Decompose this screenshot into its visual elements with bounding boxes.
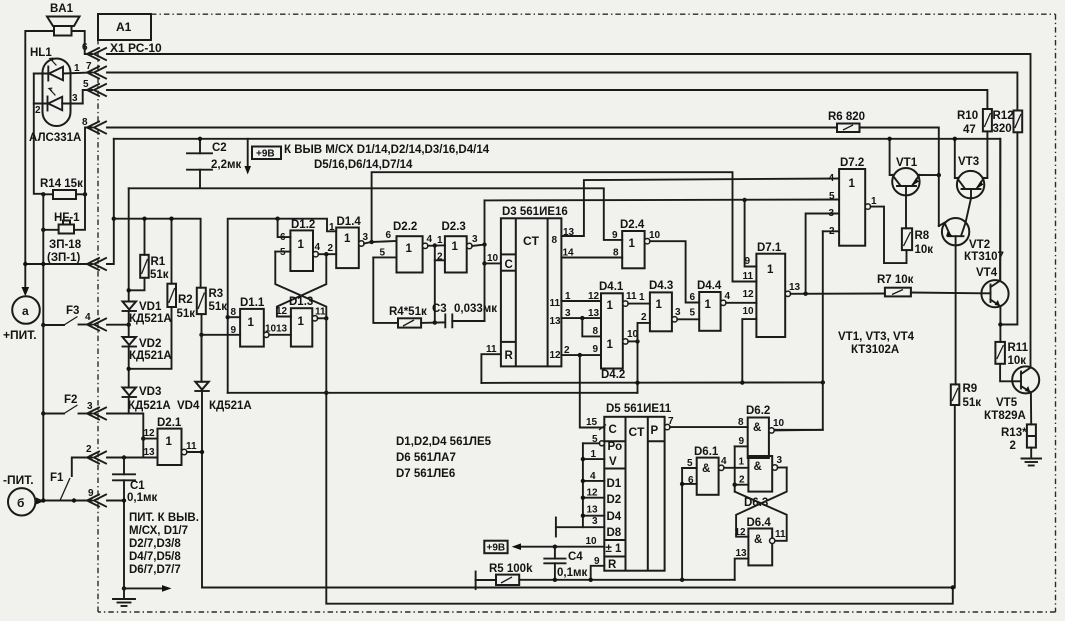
svg-text:VT1, VT3, VT4: VT1, VT3, VT4 [838, 331, 915, 343]
svg-text:12: 12 [735, 527, 747, 538]
svg-text:10: 10 [586, 536, 598, 547]
svg-text:D6.3: D6.3 [744, 497, 768, 509]
long line pin8 (+9V feed) to R6 [107, 127, 837, 129]
transistor VT2 [942, 218, 969, 245]
R12 bottom to VT4 emitter node [1001, 132, 1018, 324]
svg-text:КТ3107: КТ3107 [964, 251, 1004, 263]
svg-text:R: R [608, 559, 617, 571]
A1 box [98, 14, 151, 40]
feedback loop B (D1.1 pin8 net) [228, 392, 638, 394]
svg-text:13: 13 [276, 324, 288, 335]
svg-text:6: 6 [386, 230, 392, 241]
svg-text:VD4: VD4 [177, 400, 200, 412]
svg-text:D4.2: D4.2 [601, 369, 625, 381]
svg-text:D1.3: D1.3 [289, 296, 313, 308]
capacitor C4 [553, 545, 557, 549]
diode VD2 [128, 311, 130, 337]
resistor R11 [995, 342, 1005, 364]
svg-text:R7 10к: R7 10к [877, 274, 914, 286]
D2.2 pin5 loop to R4 [373, 257, 398, 323]
svg-text:47: 47 [963, 124, 976, 136]
D2.1 out / VD4 node down to bottom rail A [201, 452, 203, 588]
R loop / reset net [481, 381, 822, 384]
svg-text:3: 3 [675, 307, 681, 318]
D6.3/D6.4 cross coupling [736, 468, 787, 537]
svg-text:КТ829А: КТ829А [984, 410, 1026, 422]
svg-text:1: 1 [344, 233, 351, 245]
svg-text:15: 15 [586, 417, 598, 428]
svg-text:4: 4 [315, 242, 321, 253]
ZP wire to border arrow [25, 263, 92, 265]
line f to D7.2 pin 5 [485, 199, 840, 202]
svg-text:(ЗП-1): (ЗП-1) [47, 252, 81, 264]
LED HL1.2 [34, 88, 83, 110]
svg-text:+9В: +9В [256, 149, 275, 160]
svg-text:3: 3 [472, 234, 478, 245]
svg-text:± 1: ± 1 [606, 543, 623, 555]
svg-text:320: 320 [993, 123, 1012, 135]
svg-text:F1: F1 [50, 472, 64, 484]
svg-text:D4/7,D5/8: D4/7,D5/8 [129, 551, 181, 563]
svg-text:4: 4 [427, 234, 433, 245]
wire speaker right to pin 6 [72, 31, 93, 54]
svg-text:D4.3: D4.3 [649, 280, 673, 292]
diode VD1 [128, 188, 130, 301]
svg-text:51к: 51к [209, 301, 228, 313]
svg-text:2: 2 [437, 252, 443, 263]
svg-text:HF-1: HF-1 [54, 212, 80, 224]
svg-text:13: 13 [144, 447, 156, 458]
VT2 base down to R9 [955, 236, 957, 384]
svg-text:D2.3: D2.3 [442, 221, 466, 233]
svg-text:10: 10 [743, 306, 755, 317]
svg-text:3: 3 [829, 208, 835, 219]
svg-text:&: & [753, 422, 761, 434]
wire speaker left to +PIT rail [25, 31, 54, 287]
svg-text:12: 12 [276, 306, 288, 317]
VT3 collector from +9V rail [955, 139, 957, 178]
svg-text:R6 820: R6 820 [828, 111, 865, 123]
svg-text:А1: А1 [116, 20, 132, 34]
svg-text:6: 6 [690, 292, 696, 303]
svg-text:a: a [22, 304, 29, 318]
svg-text:1: 1 [406, 243, 413, 255]
svg-text:D3 561ИЕ16: D3 561ИЕ16 [502, 206, 568, 218]
svg-text:1: 1 [871, 196, 877, 207]
long line pin6 to VT5 collector [107, 54, 1031, 368]
svg-text:2: 2 [328, 243, 334, 254]
svg-text:D2.4: D2.4 [620, 219, 645, 231]
svg-text:8: 8 [82, 117, 88, 128]
svg-text:4: 4 [829, 173, 835, 184]
svg-text:2: 2 [1010, 440, 1016, 452]
svg-text:13: 13 [550, 316, 562, 327]
svg-text:D2.1: D2.1 [157, 417, 182, 429]
svg-text:10: 10 [773, 418, 785, 429]
svg-text:К ВЫВ М/СХ D1/14,D2/14,D3/16,: К ВЫВ М/СХ D1/14,D2/14,D3/16,D4/14 [284, 144, 490, 156]
common bar for data inputs [555, 518, 557, 537]
svg-text:10: 10 [265, 324, 277, 335]
svg-text:C: C [505, 259, 513, 271]
svg-text:ПИТ. К ВЫВ.: ПИТ. К ВЫВ. [129, 512, 199, 524]
svg-text:5: 5 [690, 308, 696, 319]
D5 data input comb [582, 443, 584, 527]
svg-text:7: 7 [86, 61, 92, 72]
svg-text:R14 15к: R14 15к [40, 178, 83, 190]
svg-text:D7.2: D7.2 [840, 157, 864, 169]
svg-text:12: 12 [550, 350, 562, 361]
svg-text:1: 1 [607, 300, 614, 312]
R11 to VT5 base [1000, 364, 1012, 382]
svg-text:P: P [651, 425, 659, 437]
svg-text:C2: C2 [212, 142, 227, 154]
svg-text:11: 11 [743, 271, 754, 282]
svg-text:D1.1: D1.1 [240, 297, 265, 309]
svg-text:11: 11 [775, 529, 786, 540]
VT1 emitter to VT2 node [919, 174, 938, 176]
svg-text:11: 11 [626, 291, 637, 302]
svg-text:C: C [609, 424, 617, 436]
svg-text:R5 100k: R5 100k [489, 563, 533, 575]
line b: D1.4 out up and over to D7.1 pin 11 [372, 172, 757, 281]
svg-text:R3: R3 [209, 288, 224, 300]
svg-text:D1.4: D1.4 [337, 216, 362, 228]
svg-text:2: 2 [35, 105, 41, 116]
svg-text:D6.2: D6.2 [746, 405, 770, 417]
svg-text:+9В: +9В [487, 543, 506, 554]
svg-text:КД521А: КД521А [128, 400, 171, 412]
bottom R net rail [519, 579, 735, 581]
svg-text:D4.1: D4.1 [599, 281, 624, 293]
svg-text:13: 13 [587, 505, 599, 516]
svg-text:11: 11 [550, 298, 561, 309]
svg-text:1: 1 [437, 235, 443, 246]
+9V tap arrow [247, 139, 249, 166]
svg-text:51к: 51к [177, 308, 196, 320]
svg-text:BA1: BA1 [50, 3, 74, 15]
svg-text:C1: C1 [130, 480, 145, 492]
C3 right riser to D2.3 out node, up to line f, down to D3 pin10 [484, 200, 486, 321]
svg-text:5: 5 [829, 191, 835, 202]
D5 P output pin7 to D6.2 pin8 [665, 424, 670, 429]
svg-text:8: 8 [613, 248, 619, 259]
svg-text:&: & [754, 461, 762, 473]
svg-text:51к: 51к [150, 269, 169, 281]
svg-text:R: R [505, 350, 514, 362]
svg-text:R8: R8 [915, 230, 930, 242]
svg-text:51к: 51к [963, 397, 982, 409]
svg-text:R13*: R13* [1001, 427, 1027, 439]
svg-text:D7.1: D7.1 [757, 242, 782, 254]
HL1 common cathode wire [34, 74, 44, 194]
svg-text:R11: R11 [1008, 342, 1029, 354]
svg-text:R2: R2 [178, 294, 193, 306]
capacitor C1 [123, 458, 125, 475]
svg-text:13: 13 [588, 308, 600, 319]
svg-text:1: 1 [767, 264, 774, 276]
svg-text:13: 13 [789, 282, 801, 293]
ZP wire inside module, riser to +9V rail [107, 139, 114, 264]
D6.4 pin13 from bottom rail [735, 559, 749, 580]
wire: ZP net line e [129, 188, 623, 240]
svg-text:12: 12 [588, 291, 600, 302]
svg-text:&: & [754, 534, 762, 546]
latch cross coupling D1.2/D1.3 [275, 252, 326, 319]
svg-text:9: 9 [612, 230, 618, 241]
D4.2 out riser to D4.3 pin2 [638, 323, 650, 342]
svg-text:D5/16,D6/14,D7/14: D5/16,D6/14,D7/14 [314, 159, 413, 171]
diode VD3 [128, 347, 130, 388]
svg-text:3: 3 [87, 401, 93, 412]
svg-text:КД521А: КД521А [209, 400, 252, 412]
svg-text:1: 1 [298, 239, 305, 251]
svg-text:АЛС331А: АЛС331А [29, 132, 81, 144]
svg-text:1: 1 [248, 317, 255, 329]
resistor R1 [140, 255, 149, 278]
svg-text:D6.4: D6.4 [747, 517, 772, 529]
svg-text:CT: CT [523, 234, 540, 248]
D7.1 pin9 from line f [742, 198, 746, 202]
svg-text:R9: R9 [963, 383, 978, 395]
wire VD3 to pin3 line and D2.1 inputs [128, 397, 130, 414]
svg-text:D1.2: D1.2 [291, 219, 315, 231]
VT3 emitter from R10 [984, 131, 987, 178]
VT4 collector riser to rail [999, 139, 1001, 281]
svg-text:8: 8 [552, 235, 558, 246]
svg-text:D1: D1 [607, 478, 622, 490]
resistor R9 [951, 384, 960, 405]
svg-text:11: 11 [186, 441, 197, 452]
capacitor C2 [199, 139, 201, 154]
svg-text:D6/7,D7/7: D6/7,D7/7 [129, 564, 181, 576]
terminal b (-PIT) [8, 488, 35, 515]
svg-text:D6 561ЛА7: D6 561ЛА7 [396, 452, 456, 464]
svg-text:3: 3 [72, 93, 78, 104]
svg-text:М/СХ, D1/7: М/СХ, D1/7 [129, 525, 188, 537]
svg-text:1: 1 [629, 238, 636, 250]
svg-text:2: 2 [641, 312, 647, 323]
svg-text:3: 3 [363, 232, 369, 243]
diode VD4 [201, 335, 203, 382]
svg-text:+ПИТ.: +ПИТ. [3, 328, 37, 342]
svg-text:9: 9 [88, 488, 94, 499]
svg-text:HL1: HL1 [30, 47, 52, 59]
resistor R2 [167, 284, 176, 307]
svg-text:11: 11 [315, 307, 326, 318]
svg-text:2: 2 [86, 444, 92, 455]
svg-text:1: 1 [298, 316, 305, 328]
wire pin4 line to VD1-VD2 node [107, 324, 129, 326]
+9V branch to pull-ups R1 R2 R3 [112, 217, 116, 221]
svg-text:D6.1: D6.1 [694, 446, 719, 458]
svg-text:VT5: VT5 [996, 397, 1018, 409]
svg-text:X1 РС-10: X1 РС-10 [110, 41, 162, 55]
svg-text:C4: C4 [568, 551, 583, 563]
bottom rail A [202, 405, 955, 588]
svg-text:4: 4 [721, 456, 727, 467]
VT1 collector from +9V rail [890, 139, 893, 175]
latch top line to D1.2/D1.4 [228, 219, 337, 393]
transistor VT5 [1012, 366, 1039, 393]
svg-text:D4.4: D4.4 [697, 280, 722, 292]
svg-text:R1: R1 [151, 256, 166, 268]
svg-text:VT3: VT3 [958, 156, 979, 168]
+PIT left rail (vertical x=43.3) [42, 194, 44, 501]
svg-text:9: 9 [739, 436, 745, 447]
D7.1 out riser to D7.2 pin3 [806, 214, 840, 294]
VT5 emitter to R13 [1030, 392, 1032, 424]
ground at R13 [1030, 448, 1032, 458]
svg-text:9: 9 [593, 344, 599, 355]
svg-text:1: 1 [656, 299, 663, 311]
svg-text:&: & [702, 463, 710, 475]
svg-text:VT4: VT4 [976, 267, 998, 279]
svg-text:1: 1 [705, 299, 712, 311]
svg-text:D2/7,D3/8: D2/7,D3/8 [129, 538, 181, 550]
LED HL1.1 [34, 58, 92, 80]
D7.1 pin10 from reset net [742, 319, 756, 383]
VT2 emitter from VT1 node [938, 175, 940, 226]
D7.2 output to R8 [871, 207, 907, 264]
riser R14 right to pin8 wire [85, 128, 92, 195]
svg-text:8: 8 [593, 326, 599, 337]
svg-text:7: 7 [668, 416, 674, 427]
svg-text:1: 1 [452, 241, 459, 253]
svg-text:0,1мк: 0,1мк [557, 567, 587, 579]
svg-text:10к: 10к [1008, 355, 1027, 367]
svg-text:1: 1 [329, 222, 335, 233]
svg-text:D5 561ИЕ11: D5 561ИЕ11 [606, 403, 672, 415]
svg-text:10: 10 [487, 253, 499, 264]
svg-text:CT: CT [629, 425, 646, 439]
HL1 pin3 wire to pin 5 [83, 90, 92, 104]
svg-text:5: 5 [83, 79, 89, 90]
ground at C1 [123, 588, 125, 598]
gate D6.3 [748, 456, 772, 492]
svg-text:R10: R10 [957, 110, 978, 122]
VT3 base to VT2 collector [970, 189, 972, 198]
wire pin9 to C1 [107, 500, 124, 502]
svg-text:1: 1 [639, 292, 645, 303]
resistor R8 [902, 228, 912, 250]
svg-text:13: 13 [736, 548, 748, 559]
svg-text:12: 12 [144, 428, 156, 439]
svg-text:12: 12 [743, 289, 755, 300]
svg-text:D1,D2,D4 561ЛЕ5: D1,D2,D4 561ЛЕ5 [396, 436, 492, 448]
svg-text:D8: D8 [607, 527, 622, 539]
svg-text:10: 10 [649, 230, 661, 241]
svg-text:3: 3 [592, 516, 598, 527]
svg-text:D4: D4 [607, 511, 622, 523]
svg-text:V: V [609, 456, 617, 468]
long line pin5 to R10 [107, 90, 987, 109]
+9V label box bottom [484, 541, 507, 554]
svg-text:4: 4 [725, 291, 731, 302]
X1 pin arrows (chevrons at border) [87, 48, 106, 507]
svg-text:R12: R12 [993, 110, 1014, 122]
D7.1 output 13 [785, 291, 790, 296]
svg-text:8: 8 [738, 417, 744, 428]
svg-text:VD2: VD2 [139, 338, 161, 350]
VT4 emitter to R11 [999, 306, 1001, 342]
svg-text:1: 1 [849, 178, 856, 190]
svg-text:R4*51к: R4*51к [389, 306, 427, 318]
resistor R3 [197, 288, 206, 314]
svg-text:D2.2: D2.2 [393, 221, 417, 233]
+9V rail (top power line) [114, 139, 1001, 281]
svg-text:F2: F2 [64, 394, 77, 406]
svg-text:б: б [17, 496, 24, 510]
svg-text:D7 561ЛЕ6: D7 561ЛЕ6 [396, 468, 455, 480]
svg-text:КД521А: КД521А [129, 313, 172, 325]
svg-text:F3: F3 [66, 305, 79, 317]
svg-text:3: 3 [777, 455, 783, 466]
terminal a (+PIT) [22, 287, 30, 296]
svg-text:D2: D2 [607, 494, 622, 506]
svg-text:Po: Po [608, 441, 623, 453]
+9V label box [252, 147, 281, 160]
svg-text:C3: C3 [432, 303, 447, 315]
svg-text:1: 1 [607, 339, 614, 351]
svg-text:-ПИТ.: -ПИТ. [3, 473, 34, 487]
svg-text:ЗП-18: ЗП-18 [49, 239, 82, 251]
power distribution arrow [122, 586, 126, 590]
D1.3 output down to rail B [326, 318, 953, 603]
svg-text:10к: 10к [915, 244, 934, 256]
D2.3 input tie riser [435, 246, 445, 261]
svg-text:2,2мк: 2,2мк [211, 159, 241, 171]
svg-text:VT2: VT2 [969, 239, 990, 251]
svg-text:VD3: VD3 [139, 386, 161, 398]
long line pin7 to R12 [107, 73, 1017, 111]
svg-text:1: 1 [74, 63, 80, 74]
svg-text:0,033мк: 0,033мк [454, 303, 497, 315]
svg-text:VD1: VD1 [139, 301, 162, 313]
svg-text:1: 1 [739, 457, 745, 468]
svg-text:4: 4 [85, 312, 91, 323]
D7.2 pin2 riser down to D6.2 out [823, 230, 839, 232]
svg-text:КД521А: КД521А [129, 350, 172, 362]
svg-text:КТ3102А: КТ3102А [851, 344, 899, 356]
svg-text:1: 1 [166, 436, 173, 448]
svg-text:0,1мк: 0,1мк [127, 492, 157, 504]
